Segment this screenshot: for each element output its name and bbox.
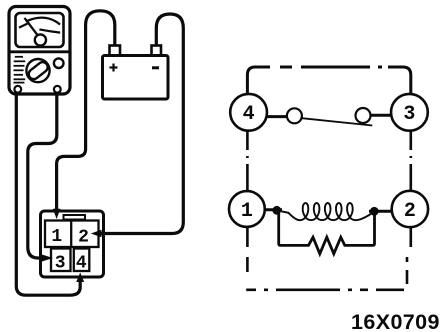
switch stub to 3 — [370, 114, 391, 117]
relay coil L — [281, 203, 374, 220]
wire meter right terminal to pin3 — [28, 93, 57, 259]
svg-text:1: 1 — [241, 200, 253, 223]
meter panel divider — [10, 50, 69, 53]
connector top row cavity — [45, 221, 99, 248]
schematic dashed box left mid — [246, 132, 249, 191]
arrowhead into pin2 — [91, 230, 102, 238]
battery post - — [152, 46, 162, 56]
meter scale arc lower-right — [39, 29, 60, 32]
terminal circle 4 — [230, 94, 267, 131]
connector keying tab — [64, 215, 86, 220]
schematic dashed box top — [247, 67, 410, 93]
meter scale arc upper — [28, 18, 61, 25]
wire meter left terminal to pin4 — [16, 93, 80, 296]
meter needle pivot — [35, 34, 46, 45]
svg-text:4: 4 — [76, 254, 87, 274]
switch blade — [302, 118, 373, 125]
schematic dashed box left lower — [246, 228, 404, 290]
svg-text:2: 2 — [78, 228, 89, 248]
connector cavity 3 — [51, 249, 71, 272]
arrowhead into pin3 — [41, 254, 53, 262]
meter scale arc lower-left — [19, 24, 27, 28]
battery - label — [152, 66, 159, 69]
terminal circle 3 — [391, 94, 428, 131]
terminal circle 1 — [229, 191, 265, 227]
coil wire to 2 — [369, 210, 392, 213]
switch contact circle right — [356, 108, 371, 123]
meter small jack circle — [54, 58, 64, 68]
meter terminal left — [14, 86, 21, 93]
schematic dashed box right mid — [409, 132, 412, 191]
switch contact circle left — [287, 108, 302, 123]
multimeter display window — [16, 13, 64, 47]
meter range knob — [26, 59, 49, 82]
battery + label — [110, 64, 118, 72]
meter panel text lines — [15, 56, 23, 58]
svg-text:3: 3 — [55, 254, 66, 274]
coil wire from 1 — [265, 208, 282, 211]
svg-text:3: 3 — [403, 103, 415, 126]
connector cavity divider — [70, 221, 72, 248]
svg-text:2: 2 — [404, 200, 416, 223]
junction dot right — [370, 207, 379, 216]
battery B1 body — [103, 56, 169, 100]
connector J1 outer shell — [41, 211, 104, 277]
arrowhead into pin1 — [53, 209, 61, 219]
schematic dashed box right lower — [407, 228, 411, 285]
meter needle — [25, 18, 38, 35]
wire battery + to pin1 — [57, 11, 115, 210]
switch stub from 4 — [267, 115, 287, 118]
svg-text:16X0709: 16X0709 — [351, 310, 440, 332]
arrowhead into pin4 — [76, 273, 84, 283]
connector cavity 4 — [74, 249, 90, 272]
svg-text:1: 1 — [51, 227, 62, 247]
resistor R branch — [279, 213, 375, 254]
terminal circle 2 — [392, 191, 428, 227]
junction dot left — [272, 206, 281, 215]
battery post + — [110, 46, 121, 56]
meter terminal right — [54, 86, 61, 93]
wire battery - to pin2 — [100, 14, 183, 234]
svg-text:4: 4 — [243, 103, 255, 126]
meter knob handle — [27, 60, 50, 81]
multimeter M1 body — [9, 7, 70, 95]
